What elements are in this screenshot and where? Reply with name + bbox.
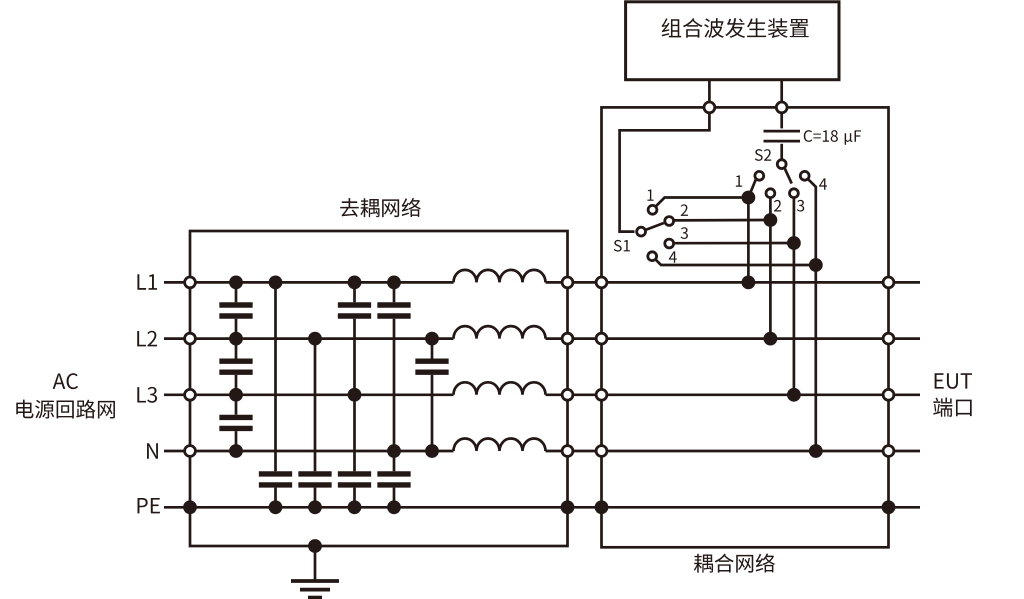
wire rail L3 bbox=[164, 393, 454, 396]
node L3 x=354.5 bbox=[348, 388, 362, 402]
switch S1 contact 1 bbox=[648, 205, 657, 214]
label S2 pos3 bbox=[797, 200, 804, 212]
capacitor C L2-L3 bbox=[219, 359, 252, 364]
inductor L3 line bbox=[454, 382, 546, 395]
node S pos3 bbox=[787, 236, 801, 250]
wire v5 L1-N-PE bbox=[393, 282, 396, 302]
wire S1 pos2 bbox=[674, 219, 771, 222]
label PE bbox=[138, 498, 160, 513]
node PE coupling-in bbox=[595, 500, 609, 514]
wire v-L3 drop bbox=[793, 198, 796, 395]
label coupling network bbox=[694, 553, 775, 572]
wire S2 pos4 drop bbox=[808, 179, 816, 451]
coupling network box bbox=[602, 107, 889, 547]
label port bbox=[933, 398, 971, 417]
terminal L3 coupling-out bbox=[883, 389, 894, 400]
switch S1 common bbox=[637, 227, 646, 236]
node L2 x=315.0 bbox=[308, 332, 322, 346]
terminal L1 coupling-out bbox=[883, 277, 894, 288]
node L1 drop bbox=[742, 276, 756, 290]
node L3 x=236.0 bbox=[229, 388, 243, 402]
capacitor C L2-N bbox=[415, 359, 448, 364]
terminal L1 decoupling-in bbox=[185, 277, 196, 288]
node PE x=354.5 bbox=[348, 500, 362, 514]
capacitor C L1-L3 bbox=[338, 302, 371, 307]
node L1 x=236.0 bbox=[229, 276, 243, 290]
wire v4 L1-L3-PE bbox=[353, 282, 356, 302]
inductor L1 line bbox=[454, 270, 546, 283]
capacitor C L3-N bbox=[219, 415, 252, 420]
switch S1 contact 2 bbox=[665, 217, 674, 226]
wire rail L1 bbox=[164, 281, 454, 284]
capacitor C L1-PE bbox=[259, 471, 292, 476]
decoupling network box bbox=[190, 231, 568, 546]
terminal N coupling-in bbox=[596, 446, 607, 457]
node PE x=315.0 bbox=[308, 500, 322, 514]
label S2 pos4 bbox=[819, 178, 827, 189]
capacitor C L1-L2 bbox=[219, 302, 252, 307]
terminal L1 coupling-in bbox=[596, 277, 607, 288]
node PE decoupling-in bbox=[183, 500, 197, 514]
ground symbol bbox=[291, 579, 339, 583]
label AC mains network bbox=[16, 400, 115, 419]
capacitor C L2-PE bbox=[298, 471, 331, 476]
node S pos4 bbox=[809, 258, 823, 272]
wire generator right lead bbox=[780, 80, 783, 108]
wire S1 pos3 bbox=[674, 242, 794, 245]
node PE x=275.5 bbox=[269, 500, 283, 514]
wire v-L1 drop bbox=[747, 198, 750, 283]
terminal generator right bbox=[776, 102, 787, 113]
wire rail L2 bbox=[164, 337, 454, 340]
label S2 pos2 bbox=[774, 200, 781, 212]
inductor N line bbox=[454, 438, 546, 451]
node N drop bbox=[809, 444, 823, 458]
terminal N decoupling-in bbox=[185, 446, 196, 457]
wire S1 pos1 bbox=[656, 198, 749, 207]
node L1 x=394.0 bbox=[387, 276, 401, 290]
terminal L3 coupling-in bbox=[596, 389, 607, 400]
capacitor C L3-PE bbox=[338, 471, 371, 476]
switch S1 contact 3 bbox=[665, 239, 674, 248]
label generator title bbox=[662, 18, 809, 38]
node N x=394.0 bbox=[387, 444, 401, 458]
combination wave generator box bbox=[626, 2, 839, 80]
switch S1 contact 4 bbox=[648, 252, 657, 261]
node PE decoupling-out bbox=[561, 500, 575, 514]
node L1 x=354.5 bbox=[348, 276, 362, 290]
switch S1 blade bbox=[646, 223, 664, 230]
wire v-L2 drop bbox=[769, 198, 772, 339]
terminal L2 coupling-in bbox=[596, 333, 607, 344]
label N bbox=[147, 443, 158, 458]
wire rail PE bbox=[164, 506, 920, 509]
inductor L2 line bbox=[454, 326, 546, 339]
wire v2 L1-PE bbox=[274, 282, 277, 471]
label S1 pos1 bbox=[647, 189, 653, 200]
terminal generator left bbox=[704, 102, 715, 113]
switch S2 contact 3 bbox=[790, 189, 799, 198]
node L2 drop bbox=[764, 332, 778, 346]
node PE x=394.0 bbox=[387, 500, 401, 514]
terminal N coupling-out bbox=[883, 446, 894, 457]
wire S1 feed bbox=[620, 112, 710, 231]
terminal L1 decoupling-out bbox=[562, 277, 573, 288]
node L3 drop bbox=[787, 388, 801, 402]
switch S2 contact 2 bbox=[766, 189, 775, 198]
capacitor C=18uF bbox=[764, 130, 801, 133]
label L3 bbox=[137, 387, 157, 403]
node S pos1 bbox=[742, 191, 756, 205]
terminal L2 coupling-out bbox=[883, 333, 894, 344]
wire cap chain L1-N bbox=[235, 282, 238, 302]
terminal L2 decoupling-out bbox=[562, 333, 573, 344]
switch S2 contact 4 bbox=[800, 171, 809, 180]
label S2 bbox=[755, 149, 771, 161]
terminal L3 decoupling-out bbox=[562, 389, 573, 400]
capacitor C L1-N bbox=[377, 302, 410, 307]
label C=18uF bbox=[804, 130, 861, 145]
wire ground stem bbox=[314, 546, 317, 581]
label S1 bbox=[614, 240, 630, 252]
node PE-ground bbox=[308, 539, 322, 553]
wire v3 L2-PE bbox=[314, 339, 317, 472]
label S2 pos1 bbox=[736, 175, 742, 186]
node L1 x=275.5 bbox=[269, 276, 283, 290]
label S1 pos2 bbox=[681, 204, 688, 216]
wire S2 pos1 drop bbox=[748, 179, 756, 197]
node S pos2 bbox=[764, 213, 778, 227]
node L2 x=236.0 bbox=[229, 332, 243, 346]
switch S2 common bbox=[777, 160, 786, 169]
label EUT bbox=[935, 373, 972, 389]
label AC bbox=[53, 373, 78, 389]
label L2 bbox=[137, 331, 157, 347]
node L2 x=432.0 bbox=[425, 332, 439, 346]
wire generator left lead bbox=[708, 80, 711, 108]
label L1 bbox=[137, 274, 157, 289]
wire S1 pos4 bbox=[656, 260, 816, 265]
terminal L3 decoupling-in bbox=[185, 389, 196, 400]
switch S2 contact 1 bbox=[755, 171, 764, 180]
node N x=432.0 bbox=[425, 444, 439, 458]
switch S2 blade bbox=[785, 168, 792, 184]
node N x=236.0 bbox=[229, 444, 243, 458]
terminal N decoupling-out bbox=[562, 446, 573, 457]
terminal L2 decoupling-in bbox=[185, 333, 196, 344]
capacitor C N-PE bbox=[377, 471, 410, 476]
label S1 pos4 bbox=[669, 251, 677, 262]
label decoupling network bbox=[340, 198, 421, 217]
node PE coupling-out bbox=[882, 500, 896, 514]
wire v6 L2-N bbox=[431, 339, 434, 359]
label S1 pos3 bbox=[681, 227, 688, 239]
wire rail N bbox=[164, 450, 454, 453]
